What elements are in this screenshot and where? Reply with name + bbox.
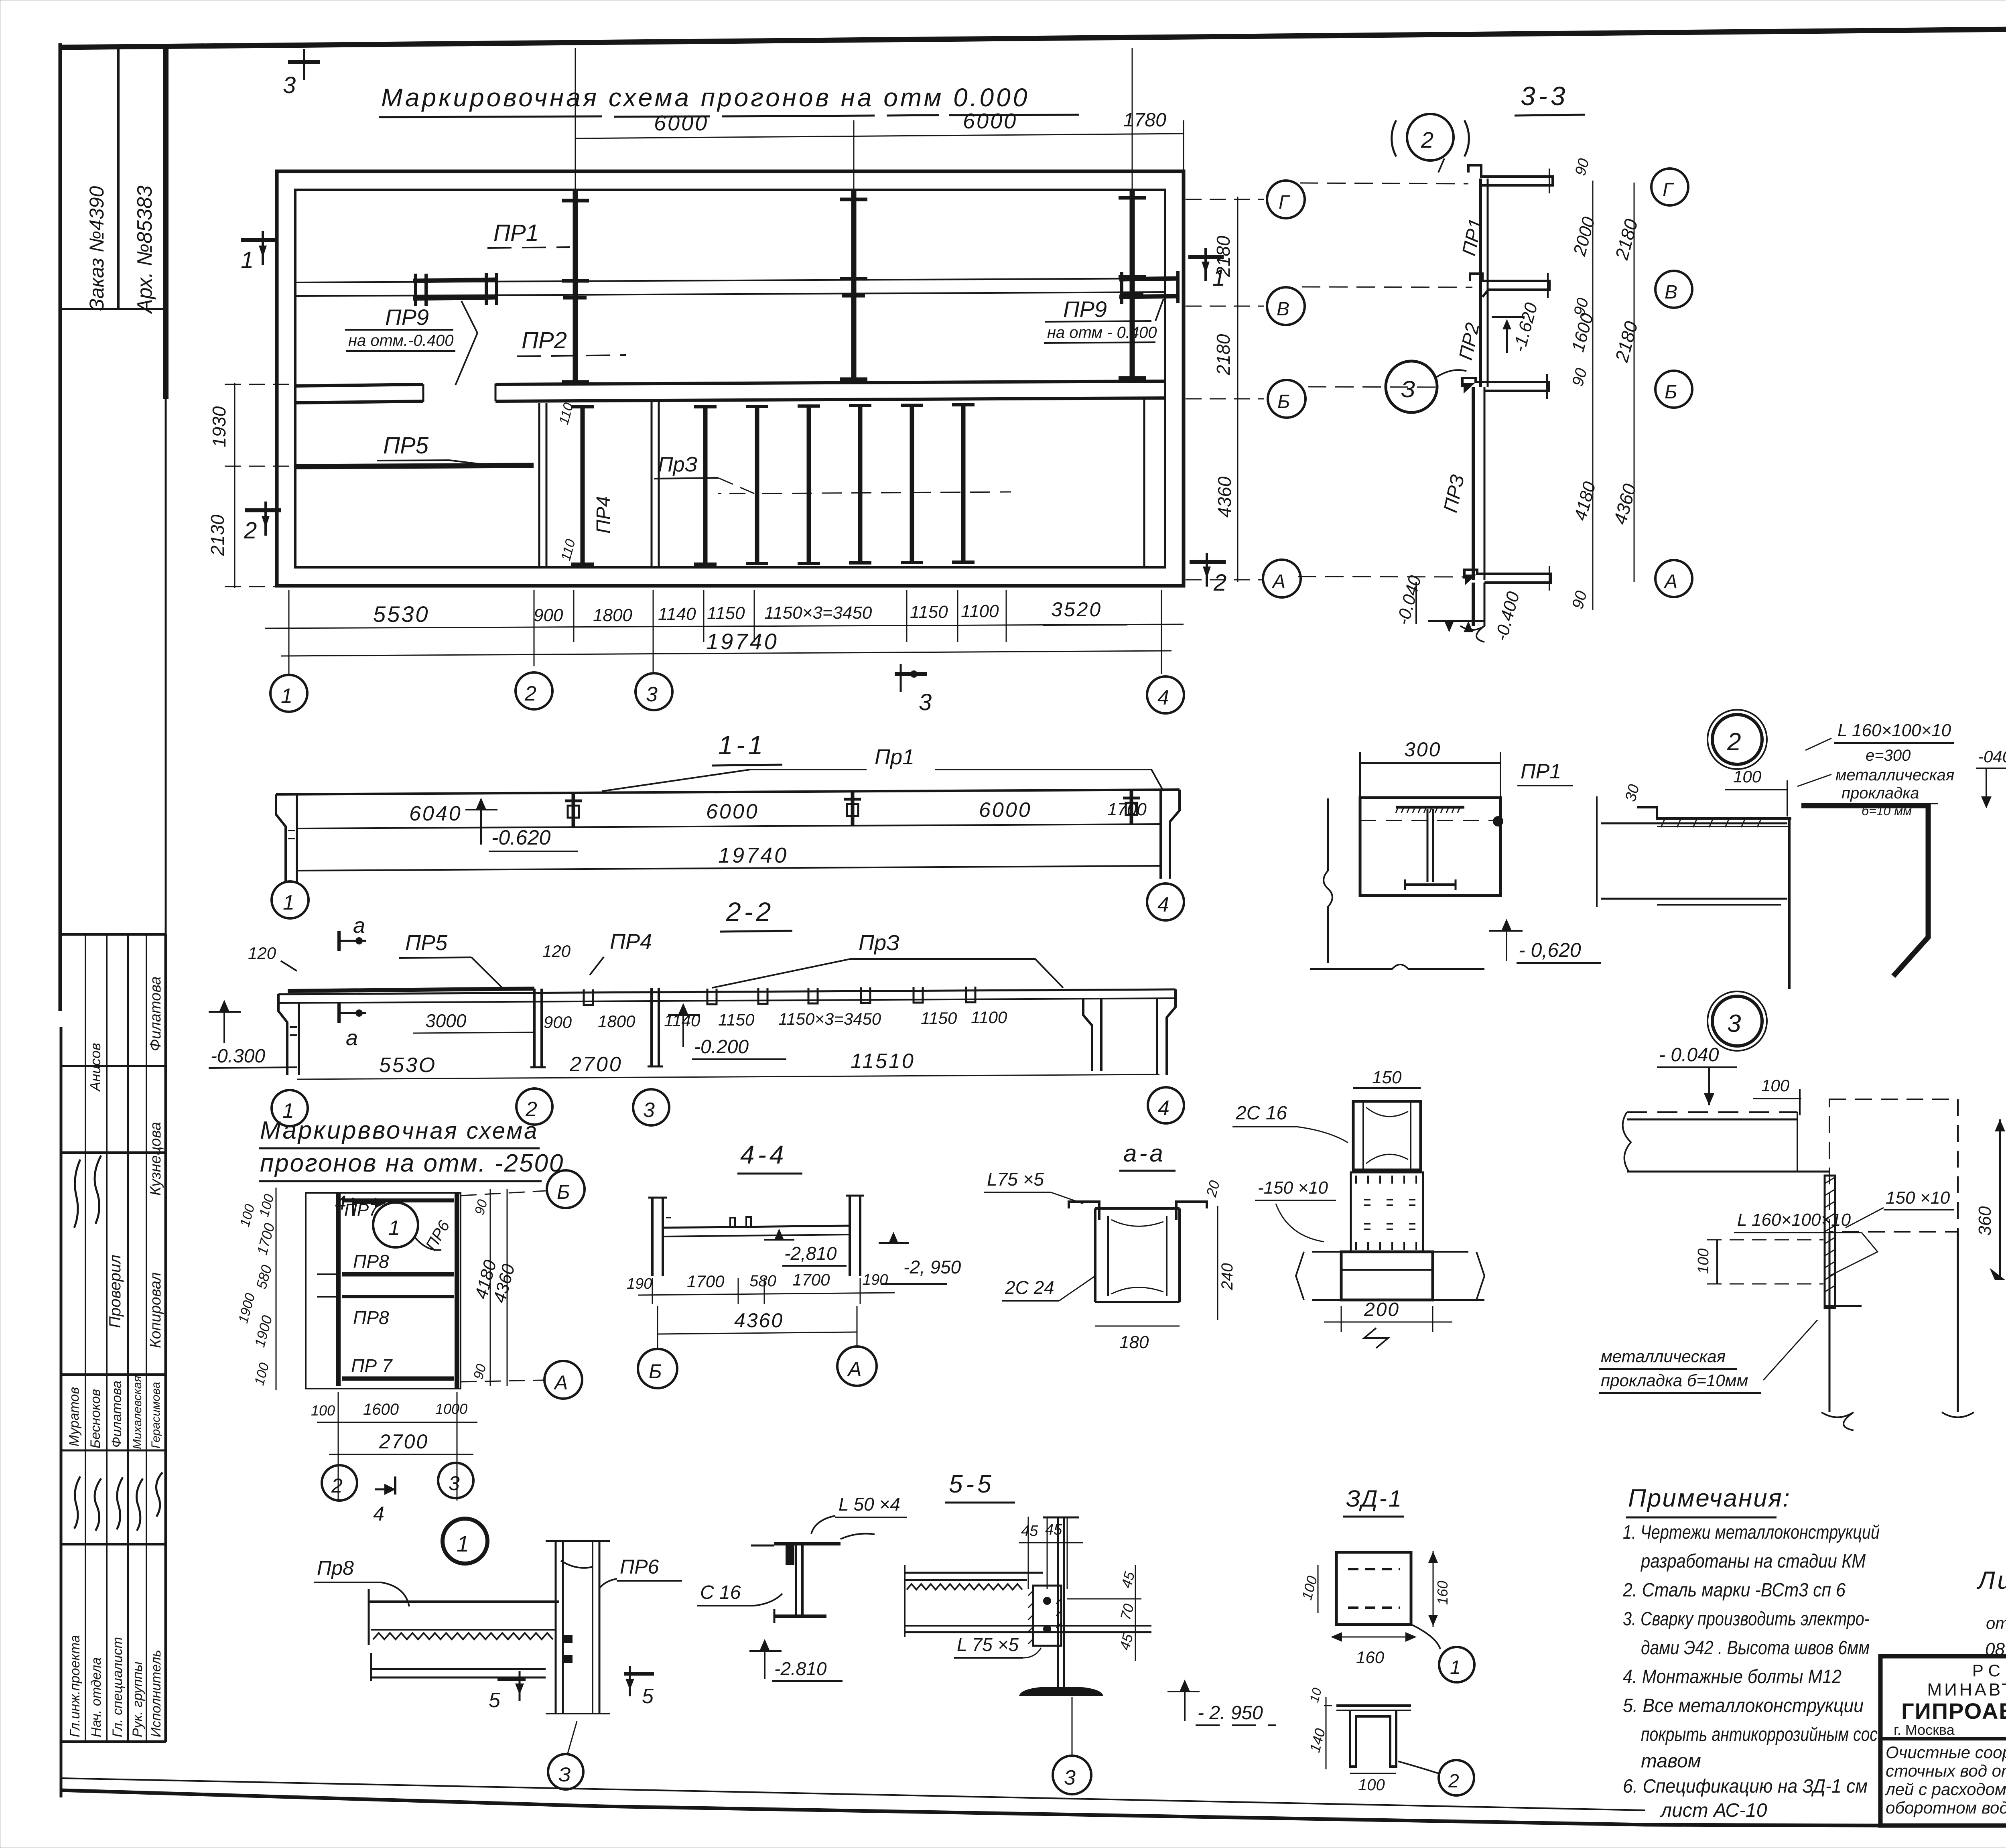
svg-text:В: В	[1277, 299, 1289, 320]
detail 2 slab box	[1310, 798, 1500, 969]
svg-text:1900: 1900	[251, 1314, 275, 1349]
section 2-2 mark a top	[339, 914, 366, 951]
section 3-3 axis circle Г right	[1651, 169, 1688, 205]
svg-text:200: 200	[1364, 1299, 1400, 1320]
svg-text:тавом: тавом	[1641, 1751, 1701, 1772]
svg-text:580: 580	[749, 1272, 776, 1290]
svg-text:1: 1	[388, 1216, 400, 1240]
svg-text:Пр8: Пр8	[317, 1557, 354, 1579]
section 4-4 dim chain	[627, 1270, 895, 1304]
svg-text:-1.620: -1.620	[1509, 301, 1541, 354]
svg-text:Маркирввочная схема: Маркирввочная схема	[260, 1117, 538, 1144]
svg-text:360: 360	[1975, 1206, 1995, 1236]
stamp rotated names upper band	[87, 977, 164, 1196]
svg-text:1150: 1150	[718, 1010, 755, 1029]
detail 1 section flag 5 right	[624, 1666, 654, 1708]
section 4-4 title	[737, 1140, 802, 1174]
svg-text:Арх. №85383: Арх. №85383	[133, 185, 156, 314]
section 3-3 axis circle А right	[1655, 560, 1692, 597]
stamp rotated label Копировал	[147, 1272, 164, 1348]
svg-text:- 0.040: - 0.040	[1659, 1044, 1719, 1066]
svg-text:Рук. группы: Рук. группы	[130, 1661, 145, 1737]
svg-text:4360: 4360	[734, 1309, 784, 1332]
svg-text:ПР 7: ПР 7	[351, 1355, 393, 1376]
detail 1 label ПР6	[599, 1556, 682, 1589]
detail ЗД-1 callout circle 2	[1398, 1760, 1474, 1795]
detail ЗД-1 title	[1343, 1486, 1404, 1517]
svg-text:900: 900	[534, 605, 563, 625]
plan left dim 1930 2130	[207, 383, 297, 588]
svg-text:160: 160	[1356, 1648, 1385, 1667]
svg-text:на отм - 0.400: на отм - 0.400	[1047, 324, 1157, 341]
svg-text:-2,810: -2,810	[784, 1243, 837, 1264]
svg-text:- 0,620: - 0,620	[1519, 939, 1581, 961]
axis circle 4	[1147, 676, 1184, 713]
section 1-1 dims 6040 6000 6000 1700	[409, 798, 1147, 825]
svg-text:2000: 2000	[1569, 215, 1599, 258]
svg-text:прогонов на отм. -2500: прогонов на отм. -2500	[260, 1149, 564, 1177]
svg-text:120: 120	[248, 944, 276, 963]
svg-text:19740: 19740	[706, 629, 779, 654]
detail 3 angle L160 hatched	[1825, 1176, 1862, 1308]
svg-text:5: 5	[642, 1685, 654, 1708]
axis circle 1	[270, 675, 307, 712]
svg-text:-0.200: -0.200	[694, 1036, 749, 1058]
detail callout circle 2	[1392, 114, 1469, 173]
svg-text:МИНАВТОТРАНС: МИНАВТОТРАНС	[1927, 1680, 2006, 1700]
svg-text:на отм.-0.400: на отм.-0.400	[348, 332, 453, 349]
svg-text:1: 1	[457, 1531, 469, 1556]
svg-text:Кузнецова: Кузнецова	[147, 1122, 164, 1196]
detail 3 beam	[1623, 1112, 1829, 1172]
plan bottom dim chain	[265, 590, 1184, 674]
svg-text:3: 3	[919, 689, 932, 715]
svg-text:ПР9: ПР9	[1063, 296, 1107, 322]
svg-text:С 16: С 16	[700, 1582, 741, 1603]
svg-text:5: 5	[489, 1689, 501, 1712]
svg-text:ПР8: ПР8	[353, 1251, 389, 1272]
svg-text:б=10 мм: б=10 мм	[1862, 804, 1912, 818]
detail 2 note block L160x100x10	[1797, 721, 1954, 818]
svg-text:2: 2	[331, 1474, 343, 1497]
axis circle 2	[516, 672, 552, 709]
section 3-3 axis circle А left	[1263, 560, 1468, 597]
svg-text:20: 20	[1203, 1179, 1223, 1199]
svg-text:ПРЗ: ПРЗ	[1440, 473, 1469, 514]
section 5-5 top dims 45 45	[1019, 1517, 1083, 1589]
svg-text:А: А	[1663, 571, 1677, 592]
detail 1 section flag 5 left	[489, 1671, 526, 1712]
detail 3 column with plate	[1821, 1099, 1974, 1430]
detail 2 level -0.400	[1976, 747, 2006, 808]
detail 2 dim 300	[1360, 738, 1500, 798]
svg-text:1: 1	[241, 247, 254, 273]
svg-text:100: 100	[1761, 1076, 1790, 1095]
section 5-5 gusset and I column	[1019, 1517, 1103, 1696]
section flag 2 right	[1190, 553, 1226, 596]
section 3-3 level -0.400	[1428, 589, 1523, 643]
title block frame	[1880, 1656, 2006, 1826]
svg-text:L 75 ×5: L 75 ×5	[957, 1634, 1019, 1655]
svg-text:150 ×10: 150 ×10	[1886, 1188, 1950, 1208]
section a-a title	[1119, 1140, 1176, 1171]
svg-text:Б: Б	[557, 1181, 570, 1203]
svg-text:ПР2: ПР2	[522, 327, 567, 353]
svg-text:Муратов: Муратов	[67, 1387, 82, 1446]
label ПР4 rotated	[556, 401, 614, 563]
label ПР9 right	[1044, 296, 1157, 343]
detail base hatched column	[1351, 1172, 1423, 1252]
girder ПР1 column axis 3	[840, 190, 867, 381]
detail callout circle 3 section	[1386, 361, 1466, 412]
page bottom border	[61, 1778, 2006, 1826]
svg-text:- 2. 950: - 2. 950	[1198, 1702, 1263, 1724]
svg-text:лист АС-10: лист АС-10	[1660, 1800, 1767, 1821]
svg-text:1800: 1800	[598, 1012, 636, 1031]
svg-text:ПР4: ПР4	[593, 496, 614, 534]
svg-text:3-3: 3-3	[1521, 81, 1568, 111]
svg-text:a: a	[346, 1026, 358, 1050]
girder ПР5	[295, 433, 534, 467]
label ПР1 rotated section	[1458, 217, 1487, 258]
plan top dimension line 6000 6000 1780	[571, 43, 1184, 189]
section 2-2 label 120 left	[248, 944, 297, 971]
section 3-3 axis circle Б right	[1655, 371, 1692, 408]
svg-text:2-2: 2-2	[726, 897, 774, 926]
detail 3 label 150x10	[1846, 1188, 1954, 1228]
svg-text:Проверил: Проверил	[106, 1255, 124, 1328]
section 3-3 level -0.040	[1393, 573, 1425, 627]
axis circle 3	[636, 673, 672, 710]
section 1-1 beam	[276, 790, 1180, 829]
svg-text:оборотном водоснабжении: оборотном водоснабжении	[1886, 1798, 2006, 1817]
svg-text:90: 90	[471, 1363, 489, 1381]
svg-text:1000: 1000	[435, 1401, 467, 1417]
section 4-4 beam	[663, 1217, 850, 1237]
svg-text:1150: 1150	[910, 602, 948, 622]
section 1-1 axis circle 4	[1147, 883, 1184, 920]
plan outer wall	[277, 171, 1184, 586]
svg-text:11510: 11510	[851, 1050, 915, 1073]
section 1-1 label Пр1	[602, 745, 1163, 791]
level -1.620 section 3-3	[1492, 301, 1541, 354]
svg-text:100: 100	[237, 1202, 258, 1229]
svg-text:Гл. специалист: Гл. специалист	[110, 1637, 125, 1737]
section 2-2 label 120 mid	[542, 942, 571, 961]
girder ПР1 column right	[1119, 190, 1146, 380]
section flag 1 left	[241, 231, 277, 273]
detail ЗД-1 callout circle 1	[1412, 1625, 1474, 1682]
svg-text:Исполнитель: Исполнитель	[148, 1650, 164, 1737]
detail 2 wall corner thick	[1789, 806, 1928, 989]
svg-text:120: 120	[542, 942, 571, 961]
label -150x10	[1255, 1178, 1336, 1242]
section 2-2 level -0.200	[668, 1003, 786, 1059]
section 2-2 beam band	[278, 989, 1176, 1003]
girder ПР9 splice left	[413, 273, 497, 385]
svg-text:Г: Г	[1279, 192, 1291, 213]
small plan bottom dims	[311, 1392, 477, 1501]
svg-text:1100: 1100	[971, 1008, 1007, 1027]
detail 3 dim 360	[1975, 1119, 2005, 1280]
svg-text:140: 140	[1306, 1726, 1328, 1754]
svg-text:300: 300	[1404, 738, 1441, 761]
svg-text:100: 100	[1733, 767, 1762, 786]
section 3-3 slab at Б	[1462, 374, 1549, 399]
svg-text:2: 2	[1448, 1771, 1459, 1792]
svg-text:1: 1	[281, 684, 292, 708]
section 3-3 slab at А	[1460, 566, 1551, 642]
svg-text:Гл.инж.проекта: Гл.инж.проекта	[67, 1635, 83, 1737]
svg-text:1700: 1700	[254, 1221, 278, 1257]
title Маркировочная схема прогонов на отм 0.000	[379, 83, 1079, 117]
svg-text:дами Э42 . Высота швов 6мм: дами Э42 . Высота швов 6мм	[1641, 1637, 1870, 1659]
svg-text:1780: 1780	[1123, 110, 1166, 131]
section 5-5 level -2.950	[1167, 1679, 1276, 1725]
label С16	[697, 1582, 782, 1606]
svg-text:1100: 1100	[961, 601, 999, 621]
detail base 2С16 column label 150	[1353, 1068, 1421, 1088]
small plan axis circle А	[461, 1361, 582, 1399]
section 2-2 dim row 1	[413, 1008, 1007, 1033]
svg-text:Б: Б	[1277, 391, 1290, 412]
svg-text:1150: 1150	[921, 1009, 957, 1028]
section 3-3 wall member	[1473, 179, 1488, 580]
section 3-3 slab at В	[1470, 273, 1549, 298]
svg-text:Михалевская: Михалевская	[131, 1376, 144, 1449]
notes text	[1622, 1522, 1880, 1821]
svg-text:металлическая: металлическая	[1835, 766, 1954, 784]
svg-text:Б: Б	[1665, 382, 1677, 403]
svg-text:45: 45	[1021, 1523, 1038, 1539]
label ПР3 rotated section	[1440, 473, 1469, 514]
svg-text:-0.400: -0.400	[1491, 589, 1523, 643]
svg-text:ГИПРОАВТОТРАНС: ГИПРОАВТОТРАНС	[1901, 1698, 2006, 1724]
section 2-2 title	[720, 897, 792, 932]
plan total dim 19740	[281, 629, 1172, 656]
svg-text:90: 90	[1572, 157, 1593, 178]
svg-text:Очистные сооружения для: Очистные сооружения для	[1886, 1743, 2006, 1762]
svg-text:5530: 5530	[373, 601, 430, 627]
detail ЗД-1 dims	[1298, 1551, 1451, 1667]
svg-text:6000: 6000	[979, 798, 1032, 822]
svg-text:4. Монтажные болты М12: 4. Монтажные болты М12	[1623, 1666, 1842, 1688]
section 2-2 label ПР4	[590, 930, 652, 975]
title block object description	[1884, 1743, 2006, 1817]
svg-text:Филатова: Филатова	[147, 977, 164, 1051]
svg-text:4180: 4180	[1570, 479, 1600, 523]
svg-text:Нач. отдела: Нач. отдела	[89, 1657, 104, 1737]
svg-text:-2.810: -2.810	[774, 1658, 827, 1679]
svg-text:a: a	[353, 914, 365, 938]
detail 2 beam to wall	[1601, 823, 1787, 905]
small plan axis circle 3	[438, 1463, 473, 1498]
svg-text:3: 3	[449, 1472, 460, 1495]
svg-text:ПР5: ПР5	[383, 433, 429, 459]
svg-text:3: 3	[283, 72, 296, 98]
label L75x5 5-5	[954, 1634, 1041, 1658]
section 1-1 axis circle 1	[272, 881, 309, 918]
small plan callout circle 1	[373, 1202, 441, 1250]
svg-text:Лист АС-6И выпущен взамен: Лист АС-6И выпущен взамен листа АС-6.	[1976, 1567, 2006, 1594]
section 2-2 mid column axis 2	[530, 989, 546, 1067]
section 3-3 dims outer column	[1609, 183, 1642, 582]
svg-text:лей с расходом 10,20,30 Ч/сек: лей с расходом 10,20,30 Ч/сек при	[1884, 1780, 2006, 1799]
svg-text:Б: Б	[649, 1360, 662, 1383]
detail 2 callout circle	[1708, 710, 1767, 769]
plan wall axis Б	[295, 381, 1165, 403]
stamp signature squiggles	[74, 1156, 162, 1531]
detail 2 wall top edge	[1597, 796, 1791, 907]
svg-text:2180: 2180	[1213, 236, 1234, 277]
svg-text:580: 580	[253, 1263, 275, 1291]
svg-text:L 50 ×4: L 50 ×4	[839, 1494, 900, 1515]
svg-text:ПР5: ПР5	[405, 931, 448, 955]
svg-text:РСФСР: РСФСР	[1972, 1661, 2006, 1680]
title Маркировочная схема прогонов на отм -2.500	[259, 1117, 564, 1181]
svg-text:L 160×100×10: L 160×100×10	[1837, 721, 1951, 740]
section 2-2 dim row 2	[297, 1050, 1159, 1079]
svg-text:90: 90	[1569, 589, 1590, 611]
svg-text:110: 110	[556, 401, 577, 426]
svg-text:ПрЗ: ПрЗ	[658, 453, 698, 476]
svg-text:Копировал: Копировал	[147, 1272, 164, 1348]
svg-text:240: 240	[1218, 1263, 1236, 1290]
section flag 3 bottom	[895, 664, 932, 715]
detail 1 label ПР8	[314, 1557, 409, 1606]
detail ЗД-1 plate	[1336, 1552, 1411, 1625]
svg-text:2: 2	[1421, 127, 1433, 152]
a-a dims 20 240 180	[1095, 1179, 1236, 1352]
svg-text:прокладка б=10мм: прокладка б=10мм	[1601, 1371, 1748, 1390]
small plan walls	[306, 1193, 461, 1389]
svg-text:1150: 1150	[707, 603, 745, 623]
svg-text:3: 3	[1064, 1766, 1076, 1789]
section 5-5 title	[945, 1470, 1015, 1503]
section 1-1 level -0.620	[465, 798, 578, 851]
svg-text:Маркировочная схема прогонов: Маркировочная схема прогонов на отм 0.00…	[381, 83, 1029, 112]
svg-text:6000: 6000	[654, 111, 709, 135]
section flag 1 right	[1188, 248, 1225, 291]
svg-text:190: 190	[863, 1271, 888, 1288]
svg-text:1900: 1900	[236, 1292, 258, 1325]
detail base plate	[1296, 1252, 1484, 1300]
detail 2 level -0.620	[1489, 919, 1601, 963]
svg-text:-0.040: -0.040	[1393, 573, 1425, 627]
page top border	[60, 23, 2006, 47]
svg-text:Бесноков: Бесноков	[88, 1389, 103, 1448]
svg-text:100: 100	[1298, 1574, 1320, 1602]
svg-text:5. Все металлоконструкции: 5. Все металлоконструкции	[1623, 1695, 1864, 1716]
svg-text:10: 10	[1307, 1686, 1324, 1704]
section 3-3 axis circle Б left	[1268, 380, 1444, 418]
svg-text:А: А	[553, 1371, 568, 1394]
small plan right dims 4180 4360	[471, 1189, 519, 1386]
section 4-4 left column	[648, 1198, 671, 1276]
svg-text:100: 100	[252, 1361, 272, 1387]
label 2С24 a-a	[1002, 1276, 1095, 1301]
detail 3 dim 100 rotated	[1695, 1240, 1823, 1284]
svg-text:разработаны на стадии КМ: разработаны на стадии КМ	[1640, 1551, 1866, 1572]
svg-text:45: 45	[1116, 1632, 1136, 1652]
svg-text:150: 150	[1372, 1068, 1402, 1087]
section 3-3 axis circle В right	[1655, 271, 1692, 308]
svg-text:2700: 2700	[569, 1053, 623, 1076]
section 3-3 axis circle Г left	[1267, 181, 1468, 218]
svg-text:2: 2	[1727, 728, 1741, 756]
svg-text:ПР8: ПР8	[353, 1307, 389, 1328]
section flag 3 top	[283, 49, 320, 98]
svg-text:6. Спецификацию на ЗД-1 см: 6. Спецификацию на ЗД-1 см	[1623, 1776, 1868, 1797]
svg-text:100: 100	[311, 1402, 335, 1419]
detail 1 callout circle	[443, 1519, 487, 1564]
svg-text:100: 100	[256, 1192, 277, 1218]
svg-text:Заказ №4390: Заказ №4390	[85, 186, 108, 311]
label L50x4	[811, 1494, 907, 1534]
section 2-2 axis circle 3	[633, 1089, 669, 1125]
section 4-4 axis circle А	[837, 1306, 877, 1386]
section 4-4 axis circle Б	[638, 1306, 677, 1388]
svg-text:6000: 6000	[963, 109, 1017, 133]
section 1-1 mid supports	[565, 790, 1140, 827]
svg-text:1140: 1140	[658, 604, 696, 624]
detail C16 level -2.810	[749, 1639, 843, 1681]
svg-text:2: 2	[244, 518, 257, 544]
svg-text:30: 30	[1622, 783, 1643, 804]
svg-text:1800: 1800	[593, 605, 632, 625]
label 2С16	[1232, 1103, 1348, 1143]
svg-text:1700: 1700	[792, 1270, 830, 1289]
svg-text:З: З	[558, 1763, 571, 1786]
section 4-4 right column	[846, 1196, 864, 1276]
svg-text:100: 100	[1695, 1249, 1712, 1274]
svg-text:1700: 1700	[1107, 800, 1147, 819]
detail 1 beam ПР8	[369, 1589, 559, 1681]
svg-text:ПР1: ПР1	[493, 220, 539, 246]
svg-text:900: 900	[544, 1013, 572, 1032]
svg-text:3: 3	[1727, 1010, 1741, 1038]
detail 1 column ПР6	[546, 1541, 610, 1714]
section 5-5 beam	[905, 1565, 1151, 1637]
svg-text:ПР1: ПР1	[1521, 760, 1561, 783]
svg-text:4: 4	[1157, 893, 1169, 916]
detail base channel box	[1353, 1101, 1421, 1170]
plan right dim 2180 2180 4360	[1186, 197, 1264, 582]
section 5-5 axis circle 3	[1053, 1697, 1091, 1794]
svg-text:6040: 6040	[409, 802, 462, 825]
svg-text:Анисов: Анисов	[87, 1043, 104, 1092]
svg-text:2180: 2180	[1213, 334, 1234, 376]
label ПР1	[487, 220, 570, 248]
section 3-3 dims inner column	[1568, 157, 1600, 611]
stamp rotated names row	[67, 1376, 162, 1449]
section 1-1 title	[712, 730, 782, 766]
svg-text:Г: Г	[1663, 179, 1675, 201]
detail 3 dim 100	[1753, 1076, 1801, 1115]
svg-text:-2, 950: -2, 950	[904, 1257, 961, 1277]
section a-a channel assembly	[1069, 1202, 1207, 1302]
svg-text:1. Чертежи металлоконструкций: 1. Чертежи металлоконструкций	[1623, 1522, 1880, 1543]
svg-text:Примечания:: Примечания:	[1628, 1484, 1791, 1512]
small plan labels	[344, 1200, 453, 1376]
svg-text:2700: 2700	[379, 1430, 428, 1453]
svg-text:2: 2	[1213, 570, 1226, 596]
stamp rotated roles bottom band	[67, 1635, 164, 1737]
svg-text:4-4: 4-4	[740, 1140, 787, 1169]
section flag 2 left	[244, 502, 281, 544]
section 1-1 dim 19740	[297, 843, 1161, 871]
small plan left dims	[236, 1188, 278, 1390]
